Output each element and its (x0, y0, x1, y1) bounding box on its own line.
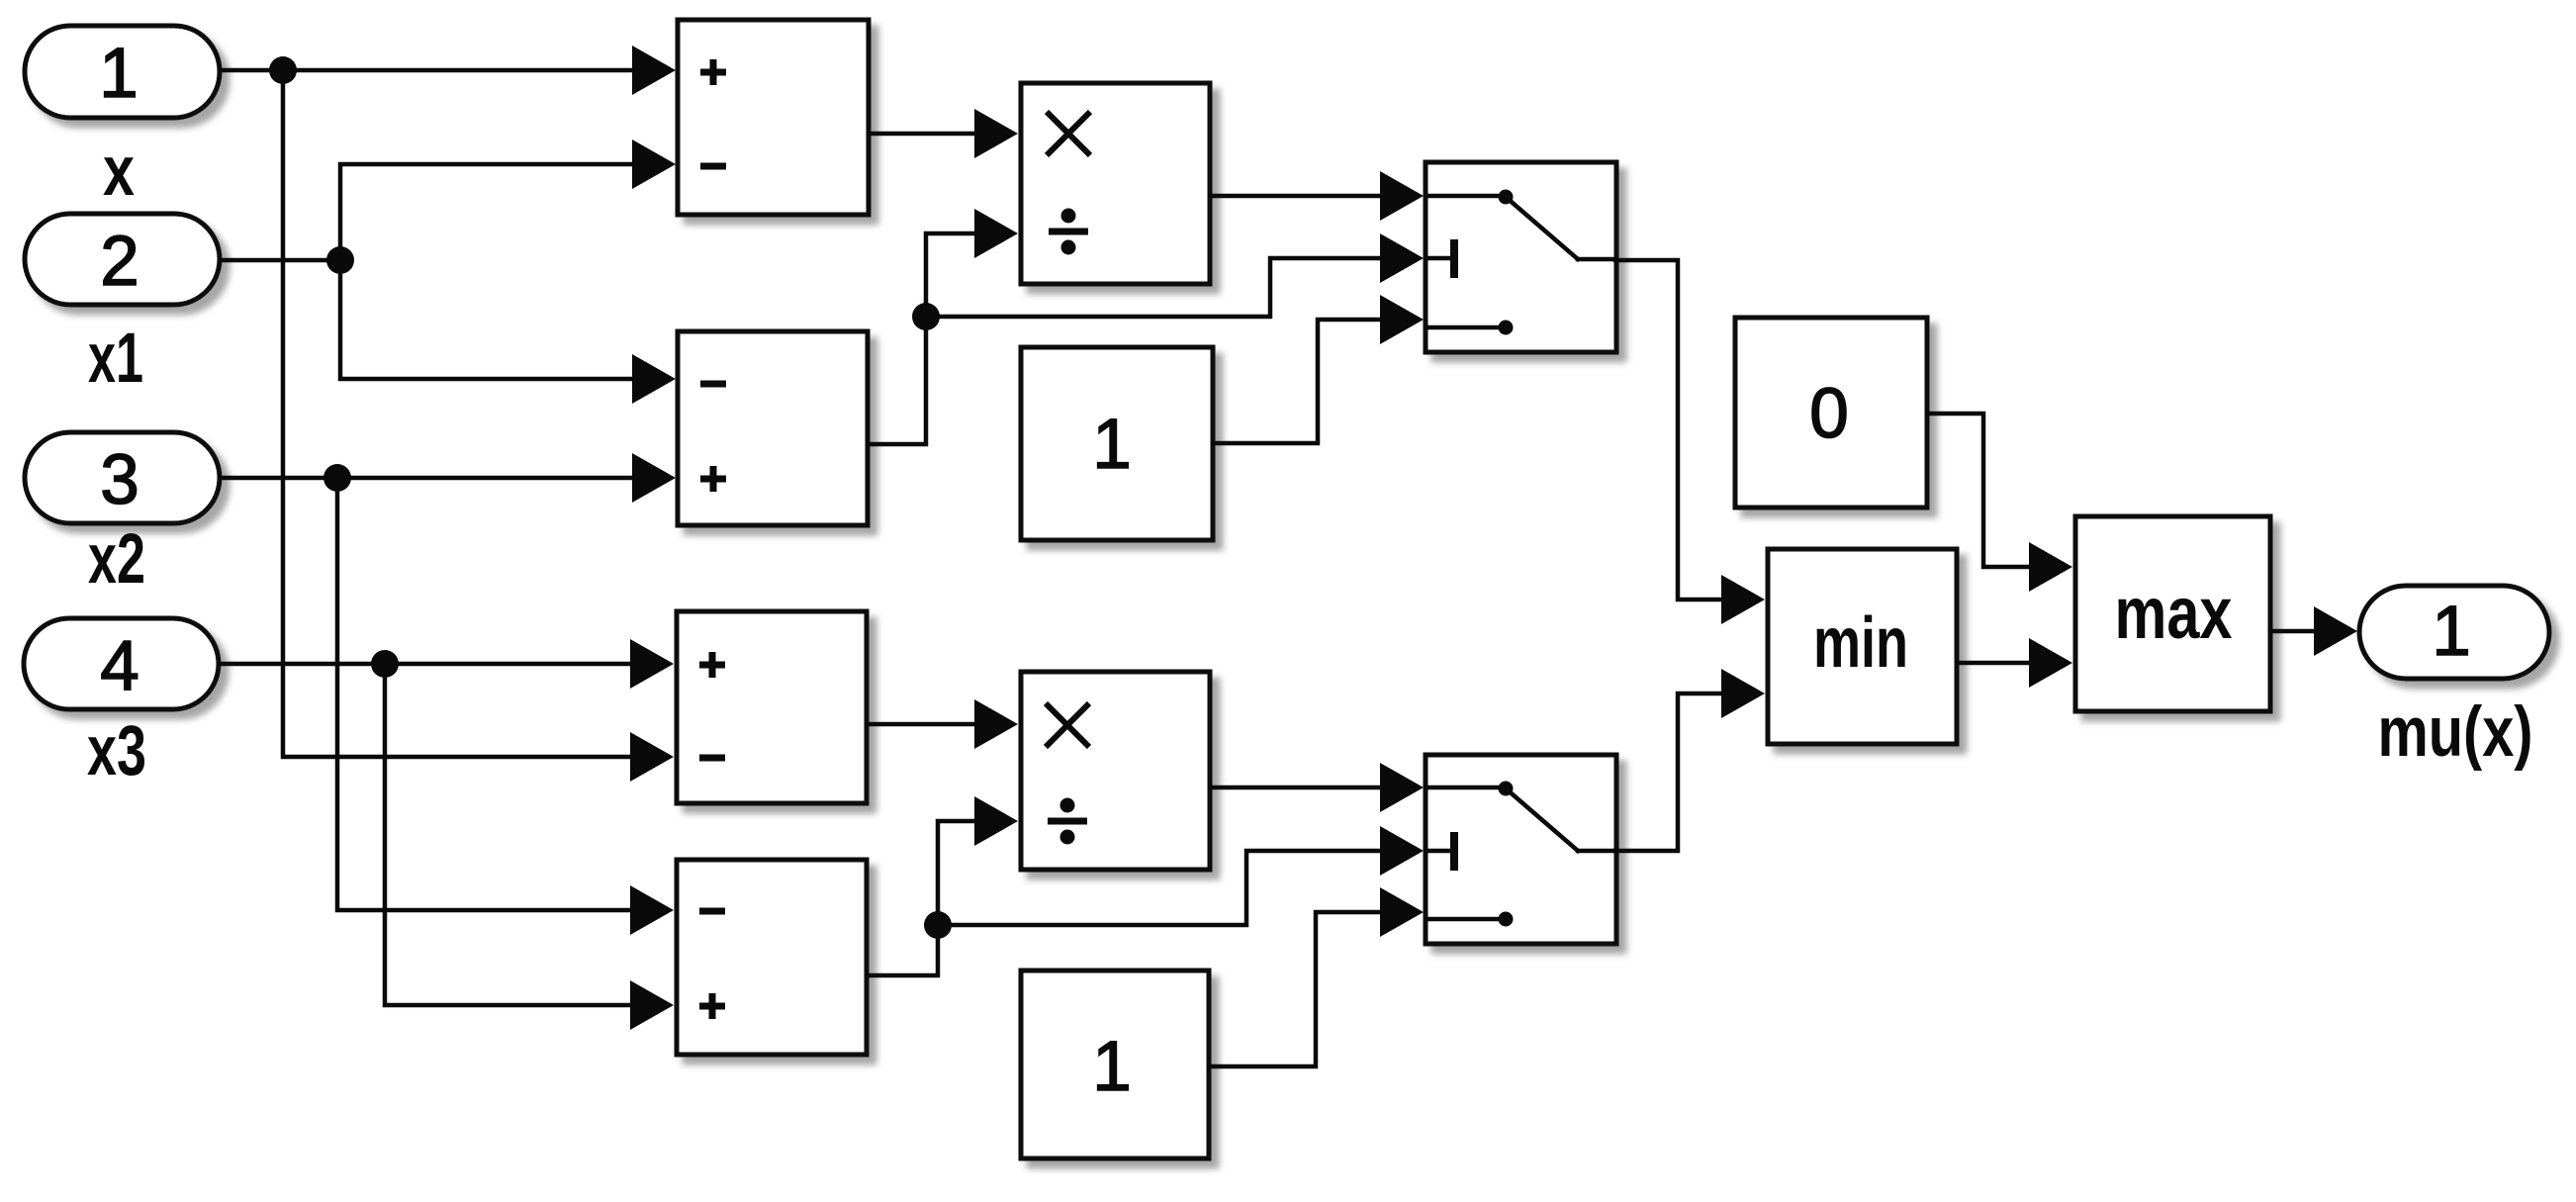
svg-text:min: min (1813, 603, 1908, 683)
wire x3 from In4 to Sum3 plus input (220, 639, 674, 689)
svg-text:max: max (2115, 572, 2233, 654)
wire Sum2 output to Switch1 control input (926, 233, 1424, 317)
input port 4 (x3), oval In4 (24, 618, 219, 709)
svg-text:x2: x2 (88, 520, 145, 599)
svg-text:4: 4 (100, 627, 139, 705)
svg-text:x3: x3 (87, 712, 146, 790)
junction x1 (326, 246, 354, 274)
wire x3 down to Sum4 plus input (385, 664, 674, 1030)
wire Sum3 output to Divide2 times input (867, 699, 1018, 749)
junction Sum4 output (924, 911, 952, 939)
wire Switch1 output to MinMax min input (1615, 260, 1765, 624)
constant block Constant0 value 0 (1735, 318, 1927, 508)
svg-text:1: 1 (1092, 1028, 1132, 1106)
wire max output to Out1 (2270, 606, 2357, 656)
label mu(x) (2378, 693, 2533, 772)
wire Constant2 to Switch2 bottom input (1209, 887, 1424, 1066)
wire Switch2 output to MinMax min input 2 (1615, 669, 1765, 851)
wire Sum1 output to Divide1 times input (869, 109, 1018, 158)
switch block Switch1 (1426, 162, 1616, 352)
svg-text:3: 3 (100, 441, 139, 519)
svg-text:1: 1 (2432, 593, 2471, 671)
wire x from In1 to junction (220, 68, 283, 73)
wire Constant1 to Switch1 bottom input (1213, 295, 1424, 443)
wire x2 down to Sum4 minus input (337, 478, 674, 935)
switch block Switch2 (1426, 755, 1616, 944)
junction x2 (323, 464, 351, 492)
sum block Sum1 (x - x1) (678, 20, 869, 215)
svg-text:x1: x1 (88, 320, 143, 398)
junction x3 (371, 650, 399, 678)
output port 1 (mu(x)), oval Out1 (2359, 586, 2549, 679)
svg-text:1: 1 (99, 35, 138, 113)
svg-text:0: 0 (1809, 375, 1849, 453)
product block Divide1 (x-x1)/(x2-x1) (1021, 83, 1210, 284)
wire Sum4 output to Divide2 divide input (867, 796, 1018, 975)
minmax block max (2075, 516, 2270, 711)
svg-text:mu(x): mu(x) (2378, 693, 2533, 772)
minmax block min (1768, 549, 1957, 744)
wire Sum4 output to Switch2 control input (938, 826, 1424, 925)
label x (103, 133, 135, 211)
input port 3 (x2), oval In3 (25, 432, 220, 523)
wire x2 from In3 to Sum2 plus input (220, 453, 676, 503)
product block Divide2 (x3-x)/(x3-x2) (1021, 672, 1210, 870)
wire x1 from In2 to junction (220, 258, 340, 263)
svg-text:2: 2 (100, 223, 139, 301)
input port 2 (x1), oval In2 (25, 214, 220, 305)
label x3 (87, 712, 146, 790)
label x1 (88, 320, 143, 398)
sum block Sum2 (x2 - x1) (678, 331, 868, 525)
svg-text:x: x (103, 133, 135, 211)
wire x down to Sum3 minus input (283, 70, 674, 782)
label x2 (88, 520, 145, 599)
wire Constant0 to MinMax max input (1927, 414, 2072, 592)
constant block Constant2 value 1 (1021, 971, 1209, 1158)
wire x1 up to Sum1 minus input (340, 139, 676, 260)
wire min output to max input 2 (1957, 638, 2072, 688)
wire Divide1 output to Switch1 top input (1210, 171, 1424, 221)
wire Divide2 output to Switch2 top input (1210, 763, 1424, 812)
svg-text:1: 1 (1092, 406, 1132, 484)
wire x1 down to Sum2 minus input (340, 260, 676, 404)
wire x to Sum1 plus input (283, 46, 676, 95)
junction x (269, 56, 297, 84)
constant block Constant1 value 1 (1021, 347, 1213, 540)
junction Sum2 output (912, 303, 940, 330)
input port 1 (x), oval In1 (25, 26, 220, 118)
sum block Sum3 (x3 - x) (677, 611, 867, 803)
wire Sum2 output to Divide1 divide input (868, 209, 1018, 444)
sum block Sum4 (x3 - x2) (677, 860, 867, 1055)
